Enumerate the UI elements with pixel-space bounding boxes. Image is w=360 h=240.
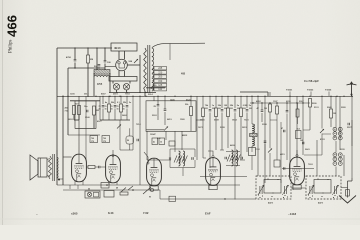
wire L1 to psu rail xyxy=(109,77,111,93)
trimmer C4 xyxy=(134,59,138,63)
wire speaker to T3 xyxy=(47,158,50,160)
svg-text:125: 125 xyxy=(158,84,163,87)
dial lamp 1 xyxy=(113,84,119,90)
mains plug box xyxy=(111,43,137,51)
svg-text:4473: 4473 xyxy=(318,202,324,205)
wire trimmer down xyxy=(165,131,167,140)
wire to lamp 1 xyxy=(112,81,114,84)
junction A33 xyxy=(114,96,115,97)
tube V3 top cap xyxy=(144,152,149,164)
oscillator coil L3 xyxy=(227,150,240,166)
resistor 25k x228 xyxy=(227,108,230,117)
wire C26 tail xyxy=(194,160,196,168)
capacitor 2n xyxy=(126,106,129,107)
rectifier tube V6 xyxy=(116,59,128,71)
wire 0.5M tail xyxy=(240,117,242,161)
svg-text:4472: 4472 xyxy=(268,202,274,205)
svg-text:245: 245 xyxy=(158,67,163,70)
capacitor 4n xyxy=(102,106,105,107)
wire R9 lead xyxy=(276,103,278,106)
switch S1 xyxy=(143,187,154,194)
wire lamp2 to rail xyxy=(126,90,128,93)
svg-text:2M: 2M xyxy=(90,59,93,61)
wire y176 row xyxy=(200,176,247,178)
trimmer C8 xyxy=(164,127,168,131)
svg-text:8.43: 8.43 xyxy=(108,211,114,215)
wire R7 lead xyxy=(330,96,332,109)
wire 70k tail xyxy=(202,117,204,159)
capacitor C1 xyxy=(74,60,77,61)
bus dot x252 xyxy=(251,96,252,97)
wire C11 tail xyxy=(286,114,288,161)
wire box lead xyxy=(92,134,94,137)
svg-text:65: 65 xyxy=(88,189,90,191)
tone control box xyxy=(104,191,114,198)
bus dot x331 xyxy=(330,96,331,97)
svg-text:100: 100 xyxy=(243,108,246,110)
tube V4 top cap xyxy=(208,151,214,158)
wire bus step xyxy=(267,92,269,96)
svg-text:B10: B10 xyxy=(157,138,160,140)
bus dot x165 xyxy=(164,96,165,97)
svg-text:4700: 4700 xyxy=(66,56,72,59)
svg-text:47: 47 xyxy=(281,127,283,130)
wire tick x70 xyxy=(69,185,71,189)
wire to V4 xyxy=(203,157,206,159)
bus dot x322 xyxy=(321,96,322,97)
bus dot x290 xyxy=(289,96,290,97)
electrolytic capacitor C19 xyxy=(126,136,134,144)
wire to tuning gang xyxy=(160,198,256,200)
wire y120 link xyxy=(196,119,203,121)
capacitor 100 x222 xyxy=(221,110,224,111)
wire x133 xyxy=(132,96,134,150)
tick T1565 xyxy=(328,92,330,97)
wire x86 long xyxy=(85,96,87,160)
oscillator shield box xyxy=(146,101,196,132)
tube V2 top cap xyxy=(112,150,114,157)
resistor R11 xyxy=(88,166,95,169)
wire vertical x281 xyxy=(280,122,282,183)
wire L2 bottom xyxy=(170,167,195,169)
wire psu bottom rail xyxy=(109,92,156,94)
output transformer T3 xyxy=(49,154,59,181)
component box x169b xyxy=(169,141,175,146)
capacitor A4 xyxy=(98,65,101,66)
wire tick x78 xyxy=(77,185,79,189)
wire top rail xyxy=(57,47,112,49)
bus dot x96 xyxy=(95,96,96,97)
wire speaker to T3 low xyxy=(47,175,50,177)
psu rail dot x146 xyxy=(145,92,146,93)
wire gang link xyxy=(291,187,306,189)
wire vertical x197 xyxy=(196,96,198,160)
bus dot x352 xyxy=(351,96,352,97)
wire 4n down xyxy=(102,109,104,121)
wire vertical x344 xyxy=(343,155,345,176)
wire y130 r xyxy=(303,129,310,131)
capacitor 1n x210 xyxy=(209,110,212,111)
component box x274 xyxy=(274,160,280,167)
wire rectifier anode to transformer xyxy=(127,64,140,66)
bus dot x265 xyxy=(264,96,265,97)
wire plug to rectifier 2 xyxy=(124,51,126,59)
resistor R12 xyxy=(120,192,128,195)
wire drop x241 xyxy=(240,96,242,108)
junction dot x225 xyxy=(224,198,225,199)
junction A9 xyxy=(96,67,97,68)
wire vertical x182 xyxy=(181,131,183,150)
wire mid join xyxy=(100,119,130,121)
wire C7 lead xyxy=(164,96,166,109)
wire gang to chassis xyxy=(341,187,348,189)
capacitor C2 xyxy=(104,61,107,62)
bus dot x337 xyxy=(336,96,337,97)
wiper arrow xyxy=(121,188,126,193)
capacitor C15 xyxy=(225,157,226,160)
svg-text:7.62: 7.62 xyxy=(143,211,149,215)
wire y150 b xyxy=(220,149,224,151)
wire L3 top xyxy=(226,151,240,153)
bus dot x140 xyxy=(139,96,140,97)
junction A61 xyxy=(227,96,228,97)
junction A58 xyxy=(221,96,222,97)
component box x152 xyxy=(152,138,158,145)
junction A49 xyxy=(202,96,203,97)
svg-text:466: 466 xyxy=(5,15,20,37)
svg-text:15: 15 xyxy=(111,109,113,111)
wire C10 lead xyxy=(261,103,263,110)
rail dot x88 xyxy=(87,47,88,48)
wire x322 tail xyxy=(321,134,323,156)
wire R1 lead xyxy=(87,48,89,55)
capacitor C5 xyxy=(87,110,88,113)
wire top tap branch xyxy=(169,44,171,61)
wire C21 lead xyxy=(269,120,271,148)
svg-text:50: 50 xyxy=(127,140,129,142)
core A83 xyxy=(250,134,258,137)
wire 25k down xyxy=(120,112,122,120)
resistor R6 xyxy=(309,99,312,108)
resistor 0.5M x241 xyxy=(240,108,243,117)
coil A85 xyxy=(333,127,342,140)
wire C11 lead xyxy=(286,103,288,111)
wire V4 pin xyxy=(208,184,210,191)
wire C19 tail xyxy=(129,144,131,150)
wire x322 drop xyxy=(321,96,323,128)
svg-text:100: 100 xyxy=(249,108,252,110)
wire branch x63 xyxy=(62,96,64,185)
junction A64 xyxy=(234,96,235,97)
heater bus wire xyxy=(57,184,240,186)
wire C7 down xyxy=(164,112,166,125)
component box x159 xyxy=(159,138,165,145)
switch lever xyxy=(128,186,133,190)
resistor R4 xyxy=(93,106,96,115)
wire box lead 2 xyxy=(104,134,106,137)
wire drop x127 xyxy=(126,96,128,104)
svg-text:408: 408 xyxy=(181,73,186,76)
svg-text:110: 110 xyxy=(158,88,162,91)
wire R1 to bus xyxy=(87,63,89,96)
capacitor C26 xyxy=(192,157,193,160)
wire R4 down xyxy=(93,115,95,128)
coil A86 xyxy=(333,153,342,166)
tube V5 octode xyxy=(290,157,305,185)
svg-text:15: 15 xyxy=(123,109,125,111)
capacitor C25 xyxy=(169,157,170,160)
wire R11 to C18 xyxy=(95,166,99,168)
wire vertical x154 xyxy=(153,96,155,101)
wire 100 tail xyxy=(221,113,223,151)
wire drop x203 xyxy=(202,96,204,108)
mains switch box xyxy=(85,191,100,198)
wire 2n down xyxy=(126,109,128,121)
bus dot x63 xyxy=(62,96,63,97)
junction A55 xyxy=(215,96,216,97)
wire vertical x303 xyxy=(302,96,304,155)
wire y150 link xyxy=(120,149,133,151)
wire T3 top xyxy=(56,150,58,156)
wire 50k down xyxy=(108,112,110,120)
capacitor C24 xyxy=(284,167,285,170)
bus dot x120 xyxy=(119,96,120,97)
wire V1 pin xyxy=(74,180,76,185)
resistor R8 xyxy=(269,104,272,112)
winding A80 xyxy=(232,150,234,166)
wire R9 tail xyxy=(276,114,278,150)
junction dot x277 xyxy=(276,102,277,103)
resistor box x295 xyxy=(296,131,302,139)
core A6 xyxy=(94,70,110,75)
svg-text:4n: 4n xyxy=(153,141,155,144)
tick T1563 xyxy=(310,92,312,97)
junction A70 xyxy=(246,96,247,97)
wire R2R3 join xyxy=(74,119,79,121)
wire R13 lead xyxy=(297,103,299,109)
svg-text:4705: 4705 xyxy=(97,83,103,86)
wire T2 top lead xyxy=(251,96,253,124)
wire V1 pin 2 xyxy=(82,180,84,185)
wire plug to rectifier xyxy=(118,51,120,59)
tube V2 xyxy=(106,155,121,183)
wire 25k tail xyxy=(227,117,229,149)
svg-text:200: 200 xyxy=(158,76,163,79)
rail dot x97 xyxy=(96,47,97,48)
bus dot x258 xyxy=(257,96,258,97)
wire left rail vertical xyxy=(56,48,58,185)
bus dot x158 xyxy=(157,96,158,97)
junction A10 xyxy=(98,67,99,68)
wire R3 down xyxy=(78,115,80,121)
junction A67 xyxy=(240,96,241,97)
wire R5 lead xyxy=(190,96,192,106)
junction dot x262 xyxy=(261,102,262,103)
junction dot x107 xyxy=(106,184,108,186)
upper bus segment right xyxy=(240,91,268,93)
svg-text:T1563: T1563 xyxy=(307,90,314,92)
antenna coil L1 winding xyxy=(94,75,110,77)
bus dot x146 xyxy=(145,96,146,97)
wire V1 to R11 xyxy=(86,166,88,168)
wire S1 down xyxy=(159,190,161,199)
resistor R7 xyxy=(330,109,333,118)
capacitor C20 xyxy=(137,139,138,142)
tuning capacitor gang section 2 xyxy=(306,176,341,199)
svg-text:T1561: T1561 xyxy=(286,90,293,92)
svg-text:15: 15 xyxy=(117,109,119,111)
resistor 25k xyxy=(120,104,123,112)
svg-text:4E10: 4E10 xyxy=(114,46,121,50)
wire vertical x258 xyxy=(257,96,259,176)
tube V5 top cap xyxy=(296,150,298,157)
svg-text:100: 100 xyxy=(205,108,208,110)
component box x169 xyxy=(169,196,176,201)
tube V1 EBL xyxy=(72,154,87,182)
wire y134 r xyxy=(322,133,331,135)
svg-text:170: 170 xyxy=(91,141,94,143)
wire A14 xyxy=(144,48,147,91)
capacitor C13 xyxy=(284,130,285,133)
svg-text:220: 220 xyxy=(158,71,163,74)
wire C26 lead xyxy=(194,149,196,157)
svg-text:100: 100 xyxy=(264,108,267,110)
wire down to bus xyxy=(67,68,69,96)
wire 50k tail xyxy=(215,117,217,151)
svg-text:170: 170 xyxy=(103,141,106,143)
wire vertical x297 xyxy=(296,96,298,157)
resistor R13 xyxy=(296,109,299,117)
wire V5 pin xyxy=(292,183,294,190)
wire L3 bottom xyxy=(226,165,240,167)
junction dot x253 xyxy=(252,102,253,103)
wire antenna branch xyxy=(96,48,98,70)
resistor R10 box xyxy=(249,148,256,156)
wire x100 drop xyxy=(99,96,101,120)
wire L5 tail xyxy=(335,167,337,177)
capacitor C7 xyxy=(164,109,167,110)
wire drop x216 xyxy=(215,96,217,108)
svg-text:~: ~ xyxy=(36,212,38,216)
main bus wire xyxy=(57,95,353,97)
svg-text:15: 15 xyxy=(105,109,107,111)
wire V2 pin xyxy=(108,181,110,185)
power transformer T1 core xyxy=(147,45,149,93)
svg-text:~1418: ~1418 xyxy=(288,212,297,216)
wire R5 down xyxy=(190,116,192,132)
wire drop x109 xyxy=(108,96,110,104)
tube V4 socket xyxy=(209,185,217,189)
resistor 70k x203 xyxy=(202,108,205,117)
trimmer C9 xyxy=(320,129,324,133)
wire vertical x352 xyxy=(351,96,353,178)
wire L2 top xyxy=(170,148,195,150)
wire y160 link xyxy=(147,159,171,161)
wire C6 lead xyxy=(157,96,159,104)
bus dot x175 xyxy=(174,96,175,97)
mains voltage tap boxes xyxy=(152,67,166,92)
component box x102 xyxy=(102,136,110,143)
junction A20 xyxy=(62,96,63,97)
left shield box top wire xyxy=(70,100,100,102)
junction A37 xyxy=(120,96,121,97)
resistor 50k xyxy=(108,104,111,112)
wire C22 tail xyxy=(264,144,266,160)
psu rail dot x127 xyxy=(126,92,127,93)
wire psu vertical xyxy=(139,55,141,93)
component box x90 xyxy=(90,136,98,143)
resistor R9 xyxy=(276,106,279,114)
capacitor 5n x247 xyxy=(246,110,249,111)
capacitor C6 xyxy=(157,105,160,106)
trimmer C23 xyxy=(117,125,121,129)
junction dot x287 xyxy=(286,102,287,103)
IF transformer T2 xyxy=(250,124,258,146)
svg-text:700: 700 xyxy=(91,138,94,140)
winding A81 xyxy=(236,150,238,166)
svg-text:T1565: T1565 xyxy=(325,90,332,92)
svg-text:Philips: Philips xyxy=(9,40,14,53)
svg-text:1k: 1k xyxy=(160,142,162,144)
tuning capacitor gang section 1 xyxy=(256,176,291,199)
bus dot x88 xyxy=(87,96,88,97)
wire vertical x340 xyxy=(339,96,341,150)
wire left branch down xyxy=(67,96,69,135)
paper fold line xyxy=(2,0,4,225)
capacitor C22 xyxy=(264,141,267,142)
power transformer T1 secondary xyxy=(152,48,154,91)
wire L1 right lead xyxy=(109,73,111,77)
shield box volume control xyxy=(75,101,96,129)
wire C1 to node xyxy=(74,63,76,69)
wire T3 bottom xyxy=(57,178,63,180)
capacitor C11 xyxy=(286,111,289,112)
wire x290 long xyxy=(289,96,291,176)
svg-text:1M: 1M xyxy=(333,113,336,115)
wire V2 pin 2 xyxy=(116,181,118,185)
wire shield box bottom xyxy=(75,127,96,129)
svg-text:s365: s365 xyxy=(71,212,78,216)
wire drop x228 xyxy=(227,96,229,108)
junction A52 xyxy=(209,96,210,97)
bus dot x110 xyxy=(109,96,110,97)
wire to lamp 2 xyxy=(129,81,131,84)
junction dot x270 xyxy=(269,102,270,103)
winding A82 xyxy=(252,124,254,133)
svg-text:EAF: EAF xyxy=(205,212,211,216)
svg-text:48: 48 xyxy=(116,187,118,190)
svg-text:Cs=58+4pF: Cs=58+4pF xyxy=(304,79,319,83)
wire vertical x317 xyxy=(316,140,318,176)
resistor R5 xyxy=(190,107,193,116)
winding A79 xyxy=(183,151,185,166)
wire C2 lead xyxy=(104,48,106,60)
wire drop x222 xyxy=(221,96,223,108)
wire y160 b xyxy=(240,159,245,161)
svg-text:10047: 10047 xyxy=(150,133,156,136)
wire right cap link xyxy=(351,120,353,146)
wire 2n tail xyxy=(234,113,236,200)
psu rail dot x140 xyxy=(139,92,140,93)
wire 5n tail xyxy=(246,113,248,153)
junction dot x303 xyxy=(302,102,303,103)
wire R7 tail xyxy=(330,118,332,127)
bus dot x310 xyxy=(309,96,310,97)
wire C2 down xyxy=(104,64,106,71)
capacitor C10 xyxy=(261,110,264,111)
wire R13 tail xyxy=(297,117,299,124)
tick T1561 xyxy=(289,92,291,97)
